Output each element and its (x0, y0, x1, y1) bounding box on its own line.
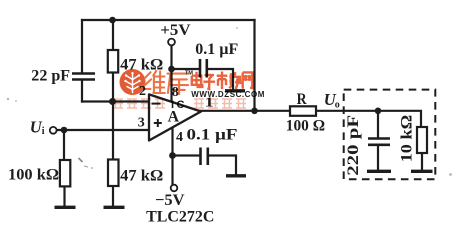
svg-text:4: 4 (176, 130, 183, 145)
svg-text:8: 8 (172, 85, 179, 100)
svg-text:R: R (297, 91, 307, 108)
svg-text:o: o (335, 100, 340, 111)
svg-text:22 pF: 22 pF (31, 68, 70, 85)
svg-text:10 kΩ: 10 kΩ (399, 115, 416, 163)
svg-text:IC: IC (171, 99, 187, 111)
svg-text:i: i (42, 126, 45, 137)
svg-text:−5V: −5V (155, 192, 185, 209)
svg-text:+5V: +5V (160, 22, 191, 39)
svg-text:220 pF: 220 pF (345, 115, 362, 176)
svg-text:3: 3 (138, 116, 145, 131)
svg-text:100 kΩ: 100 kΩ (8, 167, 59, 184)
svg-text:100 Ω: 100 Ω (286, 118, 325, 135)
svg-text:TLC272C: TLC272C (146, 209, 214, 226)
svg-text:0.1 µF: 0.1 µF (195, 41, 238, 58)
svg-text:0.1 µF: 0.1 µF (187, 126, 238, 143)
svg-text:WWW.DZSC.COM: WWW.DZSC.COM (191, 90, 265, 99)
svg-text:47 kΩ: 47 kΩ (120, 168, 163, 185)
